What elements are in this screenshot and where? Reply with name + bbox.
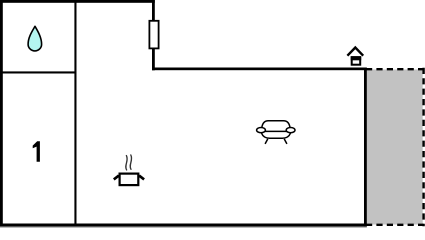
wire bottom wall — [0, 224, 367, 227]
room label 1 — [33, 141, 40, 161]
wire interior horizontal wall — [0, 71, 77, 73]
wire top wall — [0, 0, 155, 3]
wire interior vertical wall — [74, 0, 76, 224]
cooking pot icon (kitchen) — [114, 155, 144, 185]
wire right vertical wall — [364, 68, 367, 227]
wire step vertical wall — [152, 0, 155, 70]
house/entrance icon — [347, 48, 363, 65]
wire middle horizontal wall — [152, 68, 367, 71]
wire left wall — [0, 0, 3, 227]
water drop icon (bathroom) — [28, 26, 41, 51]
window symbol on step wall — [149, 21, 158, 49]
terrace (gray dashed area) — [366, 68, 424, 226]
sofa icon (living room) — [257, 121, 295, 144]
